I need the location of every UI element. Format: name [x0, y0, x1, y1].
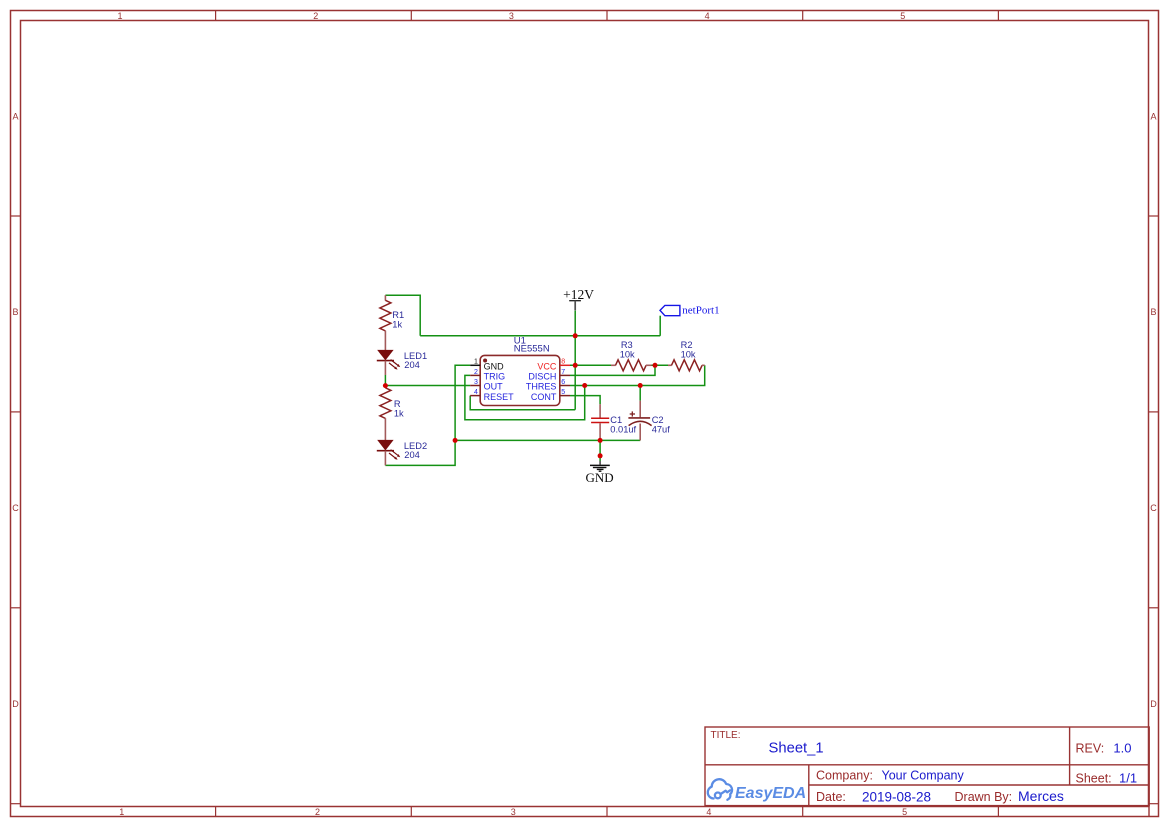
label R2 value 10k	[681, 349, 696, 359]
label R3 reference	[621, 340, 633, 350]
label R2 reference	[681, 340, 693, 350]
pin 2 TRIG	[470, 369, 505, 382]
svg-text:3: 3	[474, 379, 478, 386]
svg-text:1/1: 1/1	[1119, 770, 1137, 785]
svg-text:D: D	[1150, 699, 1157, 709]
label LED1 reference	[404, 351, 427, 361]
wire LED2 to ground rail	[385, 440, 455, 465]
svg-text:A: A	[12, 111, 18, 121]
pin 5 CONT	[531, 389, 570, 402]
svg-text:10k: 10k	[620, 349, 635, 359]
wire CONT to C1	[570, 396, 600, 405]
resistor R1	[380, 295, 391, 350]
svg-text:+12V: +12V	[563, 287, 594, 302]
capacitor C1	[591, 404, 609, 440]
svg-text:C: C	[12, 503, 19, 513]
wire GND pin1 to ground rail	[455, 365, 470, 440]
label U1 reference	[514, 336, 526, 347]
power flag +12V	[563, 287, 594, 311]
pin 7 DISCH	[528, 369, 570, 382]
svg-text:netPort1: netPort1	[682, 304, 719, 316]
svg-text:1: 1	[119, 807, 124, 817]
svg-text:3: 3	[511, 807, 516, 817]
IC U1 NE555N body	[480, 355, 560, 405]
svg-text:2: 2	[313, 11, 318, 21]
svg-text:8: 8	[561, 359, 565, 366]
svg-text:Drawn By:: Drawn By:	[955, 790, 1013, 804]
pin 8 VCC	[537, 359, 570, 372]
wire THRES to C2	[639, 386, 641, 401]
svg-text:47uf: 47uf	[652, 425, 671, 435]
svg-text:THRES: THRES	[526, 382, 557, 392]
junction THRES-C2	[638, 383, 643, 388]
label C1 reference	[610, 415, 622, 425]
svg-text:3: 3	[509, 11, 514, 21]
resistor R2	[668, 360, 705, 371]
pin 1 GND	[470, 359, 504, 372]
label R1 value 1k	[392, 320, 402, 330]
label C2 value 47uf	[652, 425, 671, 435]
svg-text:B: B	[1150, 307, 1156, 317]
svg-text:10k: 10k	[681, 349, 696, 359]
svg-text:7: 7	[561, 369, 565, 376]
svg-text:GND: GND	[484, 361, 505, 371]
title block	[705, 727, 1149, 817]
junction C1 ground	[598, 438, 603, 443]
svg-text:1k: 1k	[392, 320, 402, 330]
svg-text:OUT: OUT	[484, 382, 504, 392]
svg-text:4: 4	[706, 807, 711, 817]
svg-text:B: B	[12, 307, 18, 317]
junction ground rail left	[453, 438, 458, 443]
svg-text:C: C	[1150, 503, 1157, 513]
svg-text:2: 2	[315, 807, 320, 817]
svg-text:4: 4	[474, 389, 478, 396]
svg-text:2: 2	[474, 369, 478, 376]
svg-text:1.0: 1.0	[1113, 741, 1131, 756]
label R reference	[394, 399, 401, 409]
svg-text:RESET: RESET	[484, 392, 515, 402]
svg-text:EasyEDA: EasyEDA	[735, 785, 806, 802]
svg-text:1: 1	[474, 359, 478, 366]
svg-text:D: D	[12, 699, 19, 709]
svg-text:204: 204	[404, 360, 420, 370]
svg-text:5: 5	[900, 11, 905, 21]
label LED2 value 204	[404, 450, 420, 460]
svg-text:6: 6	[561, 379, 565, 386]
label LED2 reference	[404, 441, 427, 451]
wire netPort1 drop	[659, 316, 661, 336]
pin 4 RESET	[470, 389, 514, 402]
junction R3-R2	[653, 363, 658, 368]
wire +12V to rail	[574, 311, 576, 336]
svg-text:Your Company: Your Company	[882, 769, 965, 783]
svg-text:VCC: VCC	[537, 361, 557, 371]
wire TRIG to THRES loop	[465, 375, 585, 419]
LED LED2	[377, 440, 400, 465]
pin 3 OUT	[470, 379, 503, 392]
label R1 reference	[392, 310, 404, 320]
svg-text:A: A	[1150, 111, 1156, 121]
wire DISCH to R3-R2 node	[570, 365, 655, 375]
svg-text:TRIG: TRIG	[484, 372, 506, 382]
wire ground rail horizontal	[455, 439, 640, 441]
svg-text:5: 5	[902, 807, 907, 817]
junction VCC pin8	[573, 363, 578, 368]
svg-text:NE555N: NE555N	[514, 344, 550, 355]
capacitor C2	[628, 401, 651, 441]
wire R3 to R2	[652, 364, 669, 366]
wire R1 top to VCC rail	[385, 295, 420, 336]
svg-text:CONT: CONT	[531, 392, 557, 402]
svg-text:DISCH: DISCH	[528, 372, 556, 382]
svg-text:4: 4	[705, 11, 710, 21]
junction +12V rail	[573, 333, 578, 338]
LED LED1	[377, 350, 400, 375]
label R3 value 10k	[620, 349, 635, 359]
svg-text:Sheet:: Sheet:	[1076, 771, 1112, 785]
resistor R3	[611, 360, 652, 371]
svg-text:1: 1	[117, 11, 122, 21]
wire C1 to GND symbol	[599, 440, 601, 455]
junction LED1-R-OUT node	[383, 383, 388, 388]
label C1 value 0.01uf	[610, 425, 636, 435]
ground GND	[586, 456, 614, 485]
wire VCC pin8 to R3	[570, 364, 611, 366]
svg-text:1k: 1k	[394, 408, 404, 418]
wire VCC vertical (rail to RESET loop)	[574, 336, 576, 410]
svg-text:0.01uf: 0.01uf	[610, 425, 636, 435]
pin 6 THRES	[526, 379, 570, 392]
svg-text:REV:: REV:	[1076, 742, 1105, 756]
junction GND symbol	[598, 453, 603, 458]
label C2 reference	[652, 415, 664, 425]
wire RESET to VCC vertical	[470, 396, 575, 410]
svg-text:204: 204	[404, 450, 420, 460]
svg-text:Merces: Merces	[1018, 788, 1064, 804]
net port netPort1	[660, 304, 720, 316]
svg-text:Date:: Date:	[816, 790, 846, 804]
wire VCC rail horizontal	[420, 335, 660, 337]
label R value 1k	[394, 408, 404, 418]
EasyEDA logo	[708, 779, 732, 800]
svg-text:Company:: Company:	[816, 769, 873, 783]
svg-text:5: 5	[561, 389, 565, 396]
label LED1 value 204	[404, 360, 420, 370]
wire THRES row to R2 right	[570, 365, 705, 385]
wire OUT to LED node	[385, 385, 470, 387]
svg-text:Sheet_1: Sheet_1	[769, 741, 824, 757]
junction TRIG-THRES	[582, 383, 587, 388]
svg-text:GND: GND	[586, 470, 614, 485]
resistor R	[380, 386, 391, 441]
svg-text:2019-08-28: 2019-08-28	[862, 790, 931, 805]
wire LED1 cathode to node	[384, 375, 386, 386]
svg-text:TITLE:: TITLE:	[711, 730, 741, 741]
label U1 value NE555N	[514, 344, 550, 355]
